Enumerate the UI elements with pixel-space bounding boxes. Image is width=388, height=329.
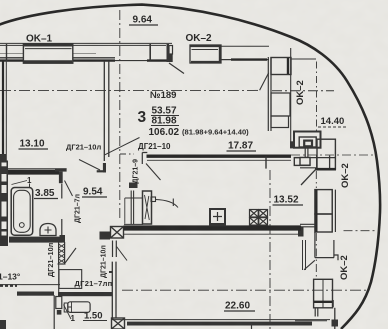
center wall dark band: [147, 154, 292, 157]
window OK-1: [23, 44, 72, 63]
centerline vertical x=270: [269, 170, 271, 329]
left stub wall verticals: [53, 295, 55, 329]
entry lower wall line: [58, 264, 60, 292]
door niche white box: [56, 297, 62, 309]
wall below column C1 upper segment: [113, 241, 117, 258]
bathroom top wall dark band: [8, 170, 59, 175]
entry door jamb block: [60, 235, 66, 243]
vent block 2x2 crossed squares: [250, 210, 268, 226]
centerline vertical x=120: [119, 10, 121, 221]
bathroom right wall: [61, 184, 63, 237]
top wall A end cap: [167, 44, 170, 62]
loggia jamb white box: [300, 158, 310, 166]
center wall bottom thin line: [147, 159, 291, 161]
left exterior wall textured (bathroom): [0, 161, 8, 247]
leader entry door: [65, 248, 76, 263]
centerline horizontal y=155 right: [291, 154, 374, 156]
top exterior wall (left section) : upper lines: [0, 43, 172, 45]
partition bottom corner bracket: [103, 163, 106, 172]
wall stub kitchen to window: [300, 224, 315, 227]
bathroom top wall T cap: [55, 168, 67, 171]
wall panel joint tick: [149, 44, 151, 61]
leader 1: [64, 305, 72, 320]
window OK-2 (top): [190, 45, 221, 63]
left bottom corner block: [0, 320, 6, 329]
leader to upper right window: [301, 168, 317, 185]
centerline horizontal y=230.7 right: [344, 230, 378, 232]
leader DG21-9: [146, 164, 161, 181]
bottom wall dark band: [127, 322, 312, 326]
entry door hatched strip: [58, 242, 66, 264]
partition between rooms (vertical double line): [104, 61, 109, 161]
left stub wall top line: [0, 284, 60, 286]
top wall left edge tick: [6, 44, 8, 61]
bathroom top wall thin line: [3, 168, 67, 170]
leader to DG21-7l: [65, 181, 73, 197]
balcony edge line: [291, 58, 316, 60]
top wall right of window OK-2: [221, 45, 269, 47]
leader from DG21-10l: [79, 160, 100, 171]
bottom wall tick: [251, 326, 253, 329]
bathroom bottom wall dark band: [9, 237, 62, 243]
left stub wall hatch: [0, 284, 17, 287]
alcove box: [59, 270, 82, 289]
bottom right wall dark band: [295, 320, 327, 322]
centerline horizontal y=90.75 right: [272, 90, 334, 92]
middle-right window OK-2: [315, 190, 338, 261]
storage bench: [64, 302, 90, 313]
storage right wall: [112, 262, 116, 321]
vestibule door swing diagonal: [117, 247, 128, 261]
left stub wall dark band: [17, 292, 54, 296]
upper-right window bracket: [315, 155, 336, 169]
column C1 (crossed box): [111, 227, 124, 239]
small dark box: [57, 310, 62, 315]
leader to middle window: [304, 260, 315, 270]
wall block left of column C1: [100, 232, 111, 240]
bottom wall thin line: [112, 319, 330, 321]
top wall faint mid line: [0, 53, 96, 55]
left exterior wall upper: [2, 60, 4, 166]
kitchen/main wall dark band: [124, 225, 302, 230]
balcony door diagonal: [169, 63, 184, 74]
stove symbol: [209, 209, 226, 226]
balcony left edge: [290, 48, 292, 147]
top exterior wall (left section) : lower dark band: [0, 59, 115, 61]
leader from DG21-10: [105, 138, 140, 155]
loggia sill line: [300, 167, 317, 169]
vent shaft nested rects: [290, 132, 335, 170]
right jamb block between OK-2 and balcony: [268, 57, 291, 131]
center wall start bracket: [142, 153, 147, 165]
bathtub: [11, 188, 33, 236]
axis line vertical x=316 (upper): [316, 62, 318, 132]
centerline stub y=154: [120, 153, 134, 155]
main wall lower thin line: [124, 233, 301, 235]
centerline horizontal y=290: [122, 289, 366, 291]
kitchen NE corner tick: [265, 156, 267, 168]
column C2 (crossed box bottom): [112, 318, 125, 329]
centerline horizontal y=90: [0, 89, 261, 91]
kitchen door assembly: [125, 183, 178, 225]
wall junction blob: [298, 227, 304, 237]
kitchen wall left thin part: [124, 224, 143, 229]
vestibule bottom wall: [58, 292, 112, 296]
washbasin: [40, 224, 56, 236]
right wall between windows: [303, 240, 306, 270]
bottom-right window OK-2: [314, 279, 335, 329]
centerline jog diagonal: [260, 73, 269, 90]
